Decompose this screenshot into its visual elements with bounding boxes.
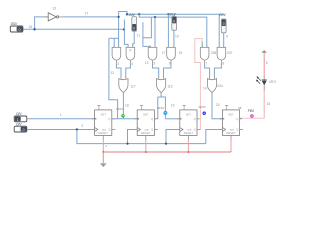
svg-text:0: 0 — [18, 28, 20, 32]
svg-text:1: 1 — [17, 118, 19, 122]
svg-text:DFF3: DFF3 — [199, 105, 206, 109]
svg-text:9: 9 — [226, 34, 228, 38]
svg-text:037: 037 — [227, 51, 233, 55]
svg-text:1: 1 — [60, 113, 62, 117]
svg-text:0: 0 — [133, 27, 135, 31]
svg-text:6: 6 — [266, 61, 268, 65]
svg-text:20: 20 — [216, 103, 220, 107]
svg-text:D1V: D1V — [170, 13, 177, 17]
svg-text:18: 18 — [125, 103, 129, 107]
svg-text:0: 0 — [223, 22, 225, 26]
svg-text:DIV: DIV — [16, 112, 22, 116]
svg-text:D4V: D4V — [129, 13, 136, 17]
svg-text:0: 0 — [173, 19, 175, 23]
svg-text:12: 12 — [111, 71, 115, 75]
svg-text:117: 117 — [130, 84, 135, 88]
svg-text:DFF2: DFF2 — [157, 106, 164, 110]
svg-text:119: 119 — [167, 84, 172, 88]
svg-text:13: 13 — [145, 61, 149, 65]
svg-text:LED1: LED1 — [269, 80, 276, 84]
svg-text:11: 11 — [137, 33, 141, 37]
svg-text:034: 034 — [217, 84, 223, 88]
svg-text:038: 038 — [211, 51, 217, 55]
svg-text:D0V: D0V — [219, 13, 226, 17]
svg-text:3: 3 — [117, 62, 119, 66]
svg-text:5: 5 — [153, 62, 155, 66]
svg-text:08: 08 — [238, 106, 242, 110]
svg-text:14: 14 — [203, 86, 207, 90]
svg-text:2: 2 — [81, 124, 83, 128]
svg-text:0: 0 — [23, 128, 25, 132]
svg-text:19: 19 — [171, 104, 175, 108]
svg-text:8: 8 — [222, 62, 224, 66]
svg-text:DIV: DIV — [16, 122, 22, 126]
svg-text:19: 19 — [179, 51, 183, 55]
svg-text:15: 15 — [267, 102, 271, 106]
svg-text:13: 13 — [52, 7, 56, 11]
svg-text:17: 17 — [85, 12, 89, 16]
svg-text:DSV: DSV — [11, 22, 18, 26]
svg-text:FB4: FB4 — [248, 109, 254, 113]
svg-text:6: 6 — [169, 62, 171, 66]
svg-text:17: 17 — [162, 51, 166, 55]
svg-text:16: 16 — [29, 25, 33, 29]
svg-text:19: 19 — [175, 34, 179, 38]
svg-text:7: 7 — [205, 62, 207, 66]
svg-text:4: 4 — [131, 62, 133, 66]
svg-text:DFF1: DFF1 — [116, 107, 123, 111]
